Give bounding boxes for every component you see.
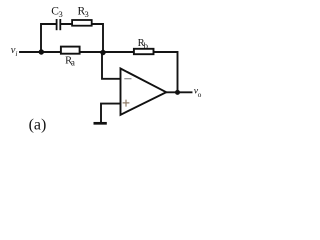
svg-text:i: i <box>15 49 17 58</box>
svg-text:b: b <box>144 41 148 51</box>
svg-text:3: 3 <box>85 9 89 19</box>
svg-text:3: 3 <box>59 9 63 19</box>
svg-text:o: o <box>198 90 202 99</box>
svg-text:a: a <box>71 58 75 68</box>
svg-text:(a): (a) <box>29 116 47 133</box>
